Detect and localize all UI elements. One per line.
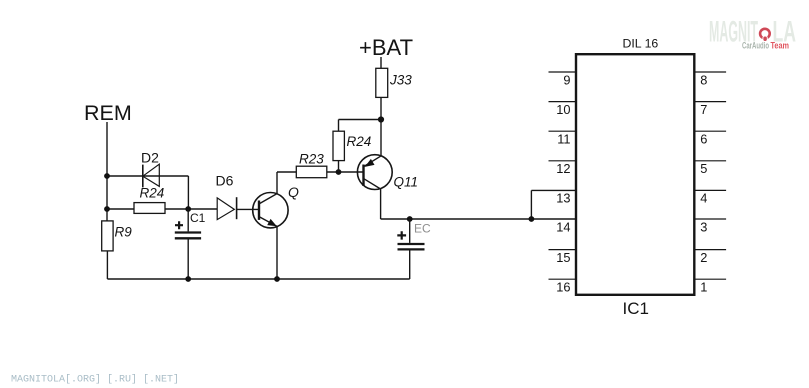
- pin 10: [549, 102, 577, 117]
- node EC-top/collector-row junction: [407, 216, 413, 222]
- pin 3: [694, 219, 726, 235]
- wire D2 right drop: [187, 176, 189, 209]
- wire pin13 jog horizontal: [531, 189, 576, 191]
- resistor R24 (vertical): [333, 120, 371, 173]
- node pin13/pin14 junction: [529, 216, 535, 222]
- svg-text:R24: R24: [140, 186, 165, 201]
- svg-text:Q11: Q11: [394, 175, 419, 190]
- logo MAGNITOLA watermark: [709, 16, 796, 51]
- svg-text:J33: J33: [389, 72, 412, 87]
- wire pin13 jog vertical: [530, 190, 532, 219]
- pin 16: [549, 279, 577, 294]
- resistor R9: [102, 221, 133, 251]
- wire collector to R23: [277, 171, 296, 173]
- resistor R23: [296, 152, 327, 178]
- wire J33 to Q11 emitter: [380, 97, 382, 156]
- svg-text:D2: D2: [141, 150, 159, 166]
- wire BAT to J33: [380, 57, 382, 68]
- svg-text:2: 2: [700, 250, 707, 265]
- svg-text:3: 3: [700, 220, 707, 235]
- pin 8: [694, 72, 726, 87]
- wire Q11 collector down: [380, 189, 382, 219]
- fuse J33: [376, 68, 412, 97]
- wire node row to J33: [339, 119, 382, 121]
- svg-text:EC: EC: [414, 222, 431, 236]
- capacitor EC: [397, 219, 431, 279]
- node C1 top junction: [185, 206, 191, 212]
- svg-text:7: 7: [700, 102, 707, 117]
- wire REM vertical: [106, 122, 108, 221]
- wire bottom rail: [107, 278, 409, 280]
- node REM/R24/R9 junction: [104, 206, 110, 212]
- svg-text:CarAudio: CarAudio: [742, 40, 769, 50]
- svg-text:REM: REM: [84, 101, 132, 125]
- svg-text:C1: C1: [190, 211, 206, 225]
- wire Q collector up: [276, 172, 278, 194]
- wire D6 to Q base: [237, 208, 259, 210]
- pin 15: [549, 250, 577, 265]
- svg-text:8: 8: [700, 72, 707, 87]
- svg-text:12: 12: [556, 161, 570, 176]
- svg-text:15: 15: [556, 250, 570, 265]
- pin 7: [694, 102, 726, 117]
- svg-text:DIL 16: DIL 16: [623, 37, 659, 51]
- svg-text:4: 4: [700, 191, 707, 206]
- svg-text:R23: R23: [299, 152, 324, 167]
- pin 11: [549, 131, 577, 146]
- node Q-emitter/rail junction: [274, 276, 280, 282]
- node +BAT/R24/Q11 junction: [378, 116, 384, 122]
- pin 13: [556, 191, 570, 206]
- svg-text:R24: R24: [347, 134, 372, 149]
- svg-text:Team: Team: [771, 40, 790, 50]
- svg-text:5: 5: [700, 161, 707, 176]
- pin 4: [694, 190, 726, 205]
- node C1-bottom/rail junction: [185, 276, 191, 282]
- svg-text:10: 10: [556, 102, 570, 117]
- transistor Q: [253, 184, 299, 228]
- diode D2: [141, 150, 159, 188]
- wire R24 row right: [165, 208, 217, 210]
- node REM/D2 junction: [104, 173, 110, 179]
- wire R23 to Q11 base: [327, 171, 364, 173]
- svg-text:14: 14: [556, 220, 570, 235]
- svg-text:6: 6: [700, 132, 707, 147]
- wire EC row to IC pin14: [381, 218, 576, 220]
- svg-text:IC1: IC1: [623, 299, 649, 318]
- transistor Q11: [357, 155, 418, 190]
- node R23/R24/Q11-base junction: [336, 169, 342, 175]
- svg-text:R9: R9: [115, 225, 133, 240]
- pin 2: [694, 250, 726, 265]
- pin 6: [694, 131, 726, 146]
- pin 12: [549, 161, 577, 176]
- svg-text:D6: D6: [216, 173, 234, 189]
- diode D6: [216, 173, 237, 220]
- pin 9: [549, 72, 577, 87]
- wire Q emitter down: [276, 226, 278, 279]
- IC U1 body IC1 DIL 16: [576, 37, 694, 318]
- wire D2 top row: [107, 175, 188, 177]
- pin 14: [556, 220, 570, 235]
- capacitor C1: [175, 209, 206, 279]
- wire R24 row left: [107, 208, 134, 210]
- pin 1: [694, 279, 726, 294]
- svg-text:11: 11: [557, 132, 570, 147]
- svg-text:9: 9: [563, 72, 570, 87]
- pin 5: [694, 161, 726, 176]
- svg-text:13: 13: [556, 191, 570, 206]
- svg-text:+BAT: +BAT: [359, 35, 413, 60]
- svg-text:MAGNITOLA[.ORG] [.RU] [.NET]: MAGNITOLA[.ORG] [.RU] [.NET]: [11, 374, 179, 386]
- wire R9 bottom: [106, 251, 108, 279]
- resistor R24 (horizontal): [134, 186, 165, 214]
- svg-text:16: 16: [556, 280, 570, 295]
- svg-text:Q: Q: [288, 184, 299, 200]
- svg-text:1: 1: [700, 280, 707, 295]
